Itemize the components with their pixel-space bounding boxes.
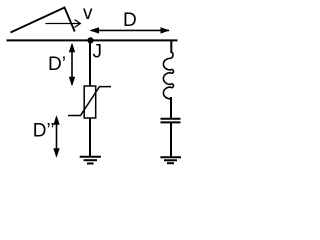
capacitor C bottom plate	[161, 121, 181, 123]
dimension arrow D' (vertical, line height to arrester top)	[69, 43, 75, 86]
svg-text:D’: D’	[48, 54, 66, 75]
wire : junction J down to arrester	[89, 40, 91, 86]
capacitor C top plate	[161, 118, 181, 120]
surge wave (triangle impulse shape)	[11, 8, 75, 33]
dimension arrow D'' (vertical, arrester bottom to ground)	[53, 115, 59, 157]
ground (right)	[160, 157, 181, 163]
node J junction dot	[87, 37, 93, 43]
dimension arrow D (horizontal, span to tower)	[89, 27, 169, 33]
wire : capacitor to ground	[170, 122, 172, 156]
velocity arrow v	[46, 20, 81, 28]
wire : arrester down to ground	[89, 118, 91, 156]
wire : main overhead conductor line	[7, 39, 178, 41]
svg-text:J: J	[93, 42, 103, 63]
svg-text:v: v	[83, 3, 93, 24]
wire : top-right drop to inductor	[170, 40, 172, 53]
varistor diagonal stroke	[68, 87, 111, 116]
svg-text:D’’: D’’	[33, 121, 55, 142]
varistor / surge arrester body	[84, 86, 96, 118]
ground (arrester)	[80, 157, 101, 164]
svg-text:D: D	[123, 10, 137, 31]
wire : inductor to capacitor	[170, 97, 172, 118]
inductor L (tower/coil)	[163, 52, 173, 99]
